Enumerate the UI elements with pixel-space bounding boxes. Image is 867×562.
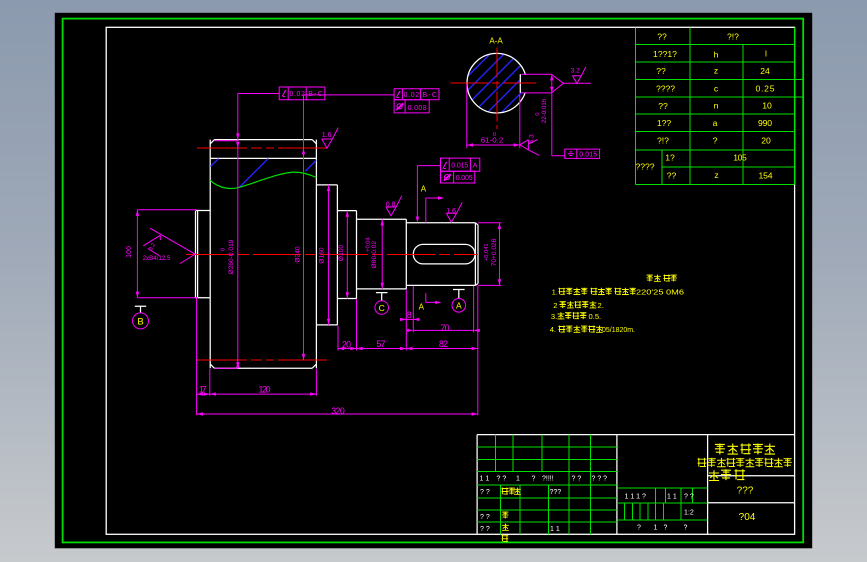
svg-text:????: ????	[656, 84, 675, 94]
svg-text:??: ??	[667, 171, 677, 181]
dia dim arrowheads	[136, 133, 502, 368]
dim 100 (left journal)	[137, 210, 198, 298]
svg-text:0: 0	[535, 112, 541, 115]
svg-text:??: ??	[656, 66, 666, 76]
svg-text:105: 105	[733, 153, 747, 163]
red crosshair	[451, 82, 537, 84]
table grid	[635, 27, 794, 184]
dim dia100 line	[346, 211, 348, 299]
svg-text:70: 70	[441, 323, 450, 333]
svg-text:0: 0	[221, 248, 227, 251]
svg-text:154: 154	[759, 171, 773, 181]
dim 8 line	[400, 318, 418, 320]
svg-text:82: 82	[439, 339, 448, 349]
svg-text:57: 57	[377, 339, 386, 349]
feature control frame 0.015 A / 0.005 (keyed section)	[416, 158, 480, 223]
hatch	[424, 0, 621, 197]
svg-text:70+0.028: 70+0.028	[491, 238, 498, 266]
svg-text:8: 8	[407, 310, 412, 320]
svg-text:0.015: 0.015	[579, 152, 597, 159]
svg-text:0.02: 0.02	[289, 91, 305, 98]
svg-text:A: A	[419, 302, 425, 311]
svg-text:h: h	[714, 50, 719, 60]
svg-text:A: A	[473, 163, 478, 170]
svg-text:0.005: 0.005	[456, 175, 473, 182]
svg-text:1: 1	[516, 476, 520, 483]
blue broken-out hatch on gear	[211, 159, 317, 188]
svg-text:10: 10	[762, 101, 772, 111]
svg-text:B-C: B-C	[308, 91, 323, 98]
svg-text:220'25 0M6: 220'25 0M6	[636, 287, 684, 296]
svg-text:??: ??	[658, 101, 668, 111]
svg-text:n: n	[714, 101, 719, 111]
notes title	[647, 275, 677, 282]
svg-text:1 1 1 ?: 1 1 1 ?	[625, 494, 647, 501]
svg-text:0.25: 0.25	[756, 84, 775, 94]
datum A symbol	[452, 290, 466, 313]
roughness 1.6 on gear pitch line	[322, 128, 339, 149]
small yellow glyphs in grid	[502, 488, 521, 542]
svg-text:l: l	[765, 49, 767, 59]
svg-text:0.008: 0.008	[408, 105, 427, 112]
svg-text:Ø160: Ø160	[319, 247, 326, 263]
svg-text:05/1820m.: 05/1820m.	[602, 325, 635, 334]
dim dia160 line	[328, 185, 330, 325]
left journal step	[196, 211, 211, 298]
white drawing frame	[106, 27, 794, 534]
dim 17 / 120 line	[197, 393, 317, 395]
svg-text:? ?: ? ?	[480, 526, 490, 533]
svg-text:1??: 1??	[657, 118, 672, 128]
school name big glyphs	[715, 444, 775, 455]
svg-text:320: 320	[331, 406, 345, 416]
svg-text:1?: 1?	[665, 153, 675, 163]
dim dia240 line	[304, 95, 395, 360]
svg-text:Ø260-0.019: Ø260-0.019	[228, 239, 235, 274]
svg-text:?!?: ?!?	[657, 136, 669, 146]
green sheet border frame	[63, 19, 804, 543]
svg-text:100: 100	[126, 246, 133, 258]
svg-text:24: 24	[760, 66, 770, 76]
svg-text:B: B	[137, 317, 143, 328]
green stubs to frame	[795, 79, 803, 97]
keyway slot (plan)	[413, 244, 475, 264]
svg-text:?: ?	[713, 136, 718, 146]
big leader arrow + 3.2	[552, 75, 591, 93]
svg-text:??: ??	[657, 32, 667, 42]
keyed end section dia70	[406, 223, 478, 286]
svg-text:? ?: ? ?	[480, 489, 490, 496]
svg-text:1:2: 1:2	[684, 510, 694, 517]
center hole leader 2xB4	[143, 228, 195, 263]
svg-text:? ?: ? ?	[480, 514, 490, 521]
left grid row texts	[480, 476, 608, 533]
svg-text:?!!!!: ?!!!!	[542, 476, 554, 483]
gear teeth root line (broken-out section)	[210, 157, 316, 159]
rotated roughness 6.3	[520, 140, 540, 156]
svg-text:a: a	[713, 118, 718, 128]
dim dia70 line	[478, 223, 502, 286]
svg-text:A: A	[421, 184, 427, 193]
svg-text:0.8: 0.8	[386, 202, 396, 209]
left grid green lines	[477, 435, 617, 535]
svg-text:6.3: 6.3	[529, 134, 536, 143]
svg-text:0.02: 0.02	[404, 92, 420, 99]
bottom pitch line	[197, 359, 327, 361]
datum B symbol	[133, 306, 149, 329]
main axis centerline	[186, 253, 478, 255]
svg-text:1 1: 1 1	[667, 494, 677, 501]
dim dia80 line	[381, 219, 383, 289]
svg-text:z: z	[714, 66, 718, 76]
svg-text:?04: ?04	[739, 512, 756, 523]
dim 320 line	[197, 413, 478, 415]
svg-text:1??1?: 1??1?	[653, 49, 677, 59]
svg-text:B-C: B-C	[422, 92, 437, 99]
svg-text:0: 0	[493, 132, 496, 138]
svg-text:2: 2	[553, 301, 557, 310]
svg-text:?: ?	[532, 476, 536, 483]
svg-text:17: 17	[199, 384, 207, 394]
svg-text:1.6: 1.6	[322, 132, 332, 139]
svg-text:2.: 2.	[598, 301, 604, 310]
svg-text:1 1: 1 1	[550, 526, 560, 533]
svg-text:? ?: ? ?	[684, 494, 694, 501]
rotated diameter labels	[126, 236, 498, 274]
svg-text:???: ???	[737, 486, 754, 497]
shaft step dia100	[337, 211, 356, 299]
shaft step dia160	[316, 185, 337, 325]
right title box lines	[708, 476, 795, 503]
red centerlines	[186, 148, 478, 360]
svg-text:3.: 3.	[551, 312, 557, 321]
svg-text:0.015: 0.015	[451, 163, 468, 170]
svg-text:1 1: 1 1	[480, 476, 490, 483]
dim dia260 line	[215, 94, 280, 369]
svg-text:1.: 1.	[552, 287, 558, 296]
svg-text:?: ?	[684, 525, 688, 532]
svg-text:c: c	[714, 84, 719, 94]
svg-text:0.5.: 0.5.	[589, 312, 602, 321]
svg-text:?: ?	[664, 525, 668, 532]
dim 20 / 57 / 82 line	[338, 348, 478, 350]
svg-text:Ø240: Ø240	[295, 246, 302, 262]
concentricity frame 0.015	[565, 149, 600, 159]
svg-text:Ø80-0.02: Ø80-0.02	[371, 241, 378, 269]
green break wave line	[210, 172, 316, 188]
shaft step dia80	[357, 219, 407, 289]
roughness 1.6 on keyed section	[446, 202, 462, 222]
keyway dim 22	[521, 74, 564, 156]
svg-text:1.6: 1.6	[446, 208, 456, 215]
svg-text:z: z	[714, 170, 718, 180]
section cut A-A arrows	[419, 184, 445, 311]
extension lines	[197, 286, 478, 415]
svg-text:1: 1	[654, 525, 658, 532]
svg-text:20: 20	[342, 339, 351, 349]
svg-text:? ?: ? ?	[497, 476, 507, 483]
svg-text:22-0.016: 22-0.016	[541, 98, 548, 123]
svg-text:????: ????	[635, 162, 654, 172]
svg-text:3.2: 3.2	[571, 67, 580, 74]
feature control frame 0.02 B-C (to dia260)	[279, 87, 325, 100]
svg-text:C: C	[379, 303, 385, 313]
keyway notch	[519, 75, 528, 92]
feature control frame 0.02 B-C / 0.008 (to dia240)	[394, 89, 439, 113]
roughness 0.8 on dia80	[386, 196, 402, 216]
title block outer border	[477, 435, 794, 535]
svg-text:20: 20	[761, 136, 771, 146]
gear body	[210, 140, 316, 369]
section circle	[467, 53, 527, 113]
svg-text:A-A: A-A	[489, 37, 503, 46]
svg-text:???: ???	[550, 489, 562, 496]
svg-text:4.: 4.	[550, 325, 556, 334]
table text	[635, 32, 774, 181]
dim 70 line	[413, 329, 473, 331]
dim 61-0.2	[467, 84, 520, 148]
svg-text:? ?: ? ?	[572, 476, 582, 483]
datum C symbol	[375, 293, 389, 315]
svg-text:+0.041: +0.041	[484, 243, 490, 261]
svg-text:?: ?	[637, 525, 641, 532]
svg-text:990: 990	[758, 118, 772, 128]
svg-text:? ? ?: ? ? ?	[592, 476, 608, 483]
svg-text:?!?: ?!?	[727, 32, 739, 42]
top pitch line	[197, 147, 327, 149]
svg-text:A: A	[456, 301, 462, 311]
svg-text:120: 120	[259, 384, 271, 394]
middle section grid	[617, 488, 708, 520]
svg-text:2xB4/12.5: 2xB4/12.5	[143, 255, 171, 262]
leader to keyed section	[417, 166, 440, 220]
svg-text:Ø100: Ø100	[338, 245, 345, 261]
